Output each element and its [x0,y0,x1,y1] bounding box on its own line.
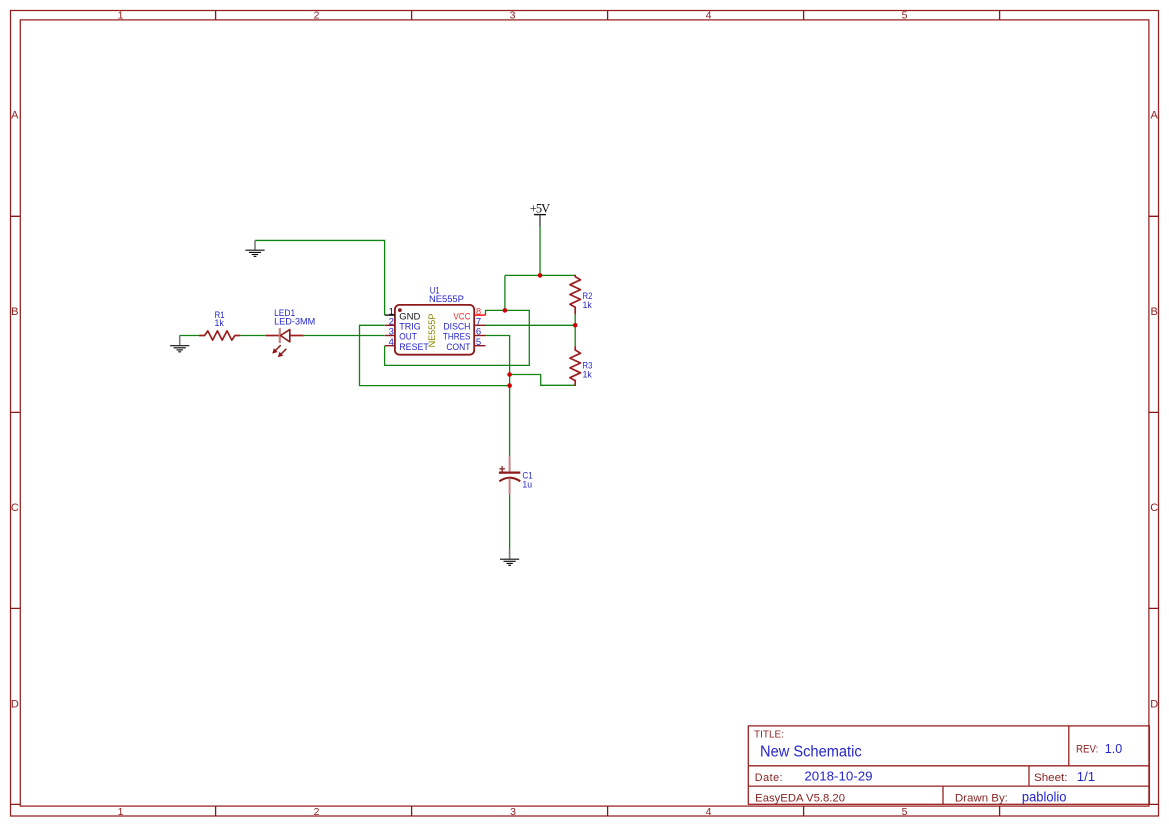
frame column numbers top [118,9,908,21]
svg-text:A: A [11,110,19,122]
IC U1 pin 6 stub [474,335,485,337]
svg-text:2018-10-29: 2018-10-29 [804,770,872,784]
junction node THRES / TRIG loop [507,383,512,388]
svg-text:1k: 1k [583,300,593,311]
wire: VCC rail horizontal to R2 top [505,274,575,276]
frame column ticks top [216,10,1000,19]
ground (left, R1) [170,336,189,352]
IC U1 pin 5 stub [474,345,485,347]
svg-text:CONT: CONT [446,342,470,353]
wire: THRES pin6 down to C1 [486,336,510,457]
svg-text:4: 4 [389,337,394,348]
LED LED1 [266,328,304,357]
svg-text:3: 3 [510,806,516,818]
wire: +5V stem down [539,227,541,276]
svg-text:5: 5 [902,806,908,818]
svg-text:1u: 1u [522,479,532,490]
wire: TRIG pin2 loop to THRES net [360,325,509,385]
svg-text:D: D [11,698,19,710]
svg-text:EasyEDA V5.8.20: EasyEDA V5.8.20 [755,792,845,804]
svg-text:Date:: Date: [755,772,783,784]
svg-text:1/1: 1/1 [1077,769,1095,784]
svg-text:5: 5 [476,337,481,348]
junction node at R2/R3 midpoint DISCH [573,323,578,328]
svg-text:New Schematic: New Schematic [760,743,862,760]
IC U1 pin 8 stub [474,314,485,316]
IC U1 pin 7 stub [474,324,485,326]
IC U1 pin 4 stub [385,345,395,347]
svg-text:NE555P: NE555P [429,294,464,305]
ground (top, near pin1 net) [245,240,264,256]
svg-text:2: 2 [314,9,320,21]
svg-text:B: B [11,306,18,318]
IC U1 pin 2 stub [385,324,395,326]
svg-text:RESET: RESET [399,342,429,353]
svg-text:A: A [1151,110,1159,122]
wire: RESET pin4 loop to VCC rail and pin8 [385,310,530,365]
svg-text:Drawn By:: Drawn By: [955,793,1008,805]
svg-text:3: 3 [510,9,516,21]
resistor R2 [570,275,581,313]
wire: VCC rail drop to pin8 wire [504,275,506,310]
capacitor C1 [499,456,520,494]
op-amp/IC U1 NE555P body [395,305,474,355]
svg-text:+5V: +5V [530,202,550,216]
wire: R2 bottom to R3 top [574,314,576,348]
svg-text:LED-3MM: LED-3MM [274,317,315,328]
svg-text:pablolio: pablolio [1022,790,1067,805]
frame row ticks right [1149,216,1159,804]
wire: jog from THRES net to R3 bottom [510,375,576,386]
frame column numbers bottom [118,806,908,818]
title block border [748,726,1149,804]
frame row ticks left [10,216,20,804]
wire: LED1 to OUT pin3 [304,335,385,337]
wire: R1 to LED1 [240,335,266,337]
svg-text:1: 1 [118,9,124,21]
svg-text:TITLE:: TITLE: [754,730,784,741]
svg-text:1k: 1k [583,369,593,380]
IC U1 pin 1 stub [385,314,395,316]
svg-text:C: C [11,502,19,514]
frame row letters right [1150,110,1158,711]
svg-text:1.0: 1.0 [1105,742,1122,756]
frame row letters left [11,110,19,711]
junction node at VCC drop / pin8 wire [503,308,508,313]
svg-text:B: B [1151,306,1158,318]
wire: top ground to pin1 GND [255,240,385,315]
svg-text:4: 4 [706,9,712,21]
svg-text:REV:: REV: [1076,744,1098,756]
svg-text:C: C [1150,502,1158,514]
resistor R1 [200,331,240,340]
IC U1 pin 3 stub [385,335,395,337]
wire: DISCH pin7 to R2/R3 midpoint [486,324,576,326]
+5V power flag [530,202,550,227]
IC U1 pin1 marker dot [398,308,402,312]
svg-text:4: 4 [706,806,712,818]
ground (bottom, C1) [500,549,519,565]
svg-text:5: 5 [902,9,908,21]
svg-text:2: 2 [314,806,320,818]
wire: left ground to R1 [180,335,200,337]
svg-text:1: 1 [118,806,124,818]
junction node at +5V rail [538,273,543,278]
wire: C1 bottom to ground [509,494,511,549]
junction node THRES / R3 bottom jog [507,372,512,377]
frame column ticks bottom [216,806,1000,816]
resistor R3 [570,347,581,385]
svg-text:NE555P: NE555P [427,314,438,348]
svg-text:1k: 1k [214,318,224,329]
svg-text:Sheet:: Sheet: [1034,772,1068,784]
svg-text:D: D [1150,698,1158,710]
